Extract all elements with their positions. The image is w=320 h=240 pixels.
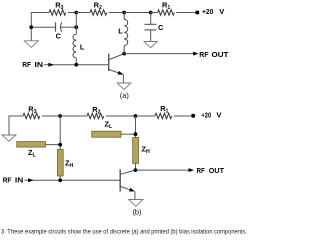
ground (b) left [2, 135, 16, 141]
wire: node to R1 (b) [136, 115, 156, 117]
resistor R3 (a) [49, 10, 66, 15]
svg-text:RF: RF [22, 60, 31, 69]
resistor R3 (b) [23, 113, 40, 118]
svg-text:+20: +20 [201, 111, 211, 120]
wire: ZH bottom to base line (b) [59, 176, 61, 180]
transistor Q (a) base bar [108, 54, 110, 71]
resistor R1 (b) [155, 113, 172, 118]
arrowhead RF IN (b) [28, 178, 33, 182]
svg-text:3. These example circuits show: 3. These example circuits show the use o… [1, 229, 247, 235]
wire: node2 to node3 [124, 12, 151, 14]
wire: RF IN lead [44, 64, 109, 66]
svg-text:RF: RF [199, 50, 209, 59]
svg-text:RF: RF [3, 176, 12, 185]
arrowhead RF OUT (b) [189, 168, 195, 172]
microstrip ZH (b, left series) [57, 150, 63, 177]
capacitor C (a, coupling) [56, 22, 62, 32]
transistor Q (a) collector lead [109, 54, 124, 60]
wire: R3 to node (b) [42, 115, 60, 117]
svg-text:RF: RF [197, 166, 206, 175]
wire: emitter to ground (a) [122, 75, 124, 84]
wire: R1 to +20V terminal [176, 12, 195, 14]
node dot (a) base line / L junction [74, 63, 78, 67]
wire: bypass cap C branch (a) [150, 13, 152, 25]
node dot (b) rail right [134, 114, 138, 118]
wire: rail node down through cap node to inductor L [75, 13, 77, 35]
wire: R2 to node (b) [106, 115, 136, 117]
ground (a) left [24, 41, 38, 48]
wire: RF IN lead (b) [25, 179, 121, 181]
microstrip ZL (b, right open stub) [92, 131, 121, 137]
wire: top rail left segment (corner to R3) [31, 13, 49, 41]
svg-text:L: L [80, 43, 85, 52]
wire: RF OUT line (a) [124, 53, 194, 55]
ground (b) emitter [129, 200, 143, 207]
wire: R3 to node1 [68, 12, 77, 14]
svg-text:IN: IN [15, 176, 23, 185]
inductor L (a, base choke) [73, 34, 76, 58]
node dot (a) rail/L-branch top [74, 11, 78, 15]
node dot (b) ZL tap right [134, 132, 138, 136]
svg-text:(a): (a) [120, 91, 129, 100]
wire: cap bottom to ground (a) [150, 30, 152, 42]
wire: node3 to R1 [151, 12, 158, 14]
svg-text:OUT: OUT [209, 166, 225, 175]
svg-text:(b): (b) [132, 207, 141, 216]
wire: inductor L bottom to input line [75, 58, 77, 65]
svg-text:OUT: OUT [212, 50, 229, 59]
wire: capacitor C to node column [61, 26, 77, 28]
node dot (a) cap C row right [74, 25, 78, 29]
wire: emitter to ground (b) [134, 191, 136, 199]
transistor Q (a) emitter lead [109, 70, 123, 75]
ground (a) emitter [117, 83, 131, 89]
wire: node1 to R2 [76, 12, 90, 14]
wire: ZL right to column (b) [121, 133, 136, 135]
resistor R2 (a) [90, 10, 107, 15]
node dot (a) cap C row left [29, 25, 33, 29]
terminal dot +20V (b) [191, 114, 195, 118]
svg-text:+20: +20 [202, 7, 213, 16]
wire: ZH bottom to collector node (b) [135, 163, 137, 170]
inductor L (a, collector choke) [124, 19, 128, 45]
transistor Q (b) emitter lead [120, 187, 134, 192]
node dot (b) ZL tap left [58, 143, 62, 147]
node dot (a) collector [122, 52, 126, 56]
microstrip ZH (b, right series) [133, 137, 139, 163]
transistor Q (b) collector lead [120, 170, 135, 174]
wire: collector column dot to inductor top [123, 13, 125, 20]
wire: top rail left corner (b) [9, 116, 23, 135]
wire: node to R2 (b) [60, 115, 87, 117]
terminal dot +20V (a) [195, 11, 199, 15]
wire: R1 to +20V terminal (b) [174, 115, 192, 117]
ground (a) bypass [144, 42, 157, 48]
node dot (b) rail left [58, 114, 62, 118]
wire: left node to capacitor C [31, 26, 55, 28]
arrowhead RF OUT (a) [193, 52, 199, 56]
wire: left column vertical (b) [59, 116, 61, 150]
svg-text:IN: IN [35, 60, 44, 69]
wire: inductor bottom to collector node [123, 46, 125, 54]
capacitor C (a, bypass) [145, 24, 157, 30]
microstrip ZL (b, left open stub) [17, 142, 46, 148]
wire: RF OUT line (b) [136, 169, 191, 171]
wire: R2 to node2 [109, 12, 124, 14]
emitter arrowhead (b) [129, 188, 135, 194]
resistor R1 (a) [158, 10, 175, 15]
svg-text:C: C [158, 23, 164, 32]
node dot (a) bypass cap tap [149, 11, 153, 15]
svg-text:C: C [56, 32, 62, 41]
wire: ZL to left column (b) [46, 144, 61, 146]
emitter arrowhead (a) [118, 71, 124, 77]
arrowhead RF IN (a) [48, 63, 54, 67]
node dot (b) base line / ZH junction [58, 178, 62, 182]
node dot (a) collector column top [122, 11, 126, 15]
wire: right column vertical (b) [135, 116, 137, 137]
svg-text:L: L [118, 27, 123, 36]
transistor Q (b) base bar [119, 169, 121, 191]
node dot (b) collector [134, 168, 138, 172]
resistor R2 (b) [87, 113, 104, 118]
